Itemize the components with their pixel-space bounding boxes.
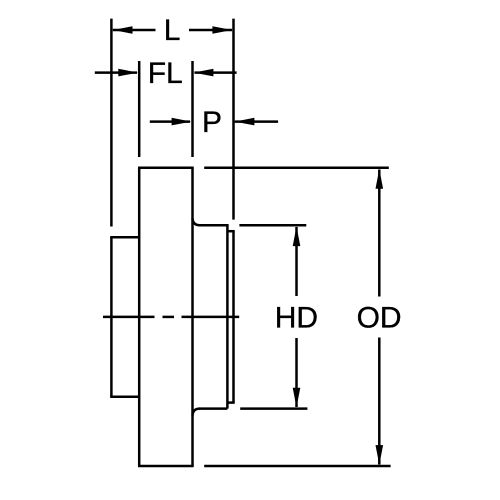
part: fillet bottom (flange to boss) bbox=[193, 409, 200, 416]
svg-text:HD: HD bbox=[275, 301, 318, 334]
part: flange right face bbox=[191, 168, 194, 466]
part: boss end face edge bbox=[226, 225, 229, 408]
part: step top edge bbox=[227, 230, 234, 233]
part: boss bottom edge (HD) bbox=[199, 407, 227, 410]
dimension P: right leader line bbox=[235, 120, 278, 123]
centerline segment long left bbox=[103, 316, 155, 319]
dimension OD: top arrow bbox=[376, 169, 384, 189]
dimension HD: top arrow bbox=[293, 226, 301, 246]
dimension L: left arrow bbox=[113, 26, 133, 34]
svg-text:P: P bbox=[202, 106, 222, 139]
dimension OD: lower line segment bbox=[378, 338, 381, 465]
dimension OD: upper line segment bbox=[378, 170, 381, 297]
extension line: left face (L dimension, left) bbox=[110, 19, 113, 227]
dimension FL: left arrow bbox=[118, 69, 138, 77]
svg-text:FL: FL bbox=[148, 57, 183, 90]
svg-text:OD: OD bbox=[357, 301, 402, 334]
dimension L: left line segment bbox=[113, 29, 156, 32]
extension line: flange left face (FL dimension, left) bbox=[138, 61, 141, 157]
part: boss top edge (HD) bbox=[199, 224, 229, 227]
dimension HD: upper line segment bbox=[295, 227, 298, 296]
part: hub top edge bbox=[110, 236, 139, 239]
extension line: OD top bbox=[204, 167, 389, 170]
dimension L: right line segment bbox=[189, 29, 232, 32]
part: flange bottom edge (OD) bbox=[138, 465, 194, 468]
dimension HD: lower line segment bbox=[295, 338, 298, 407]
svg-text:L: L bbox=[164, 14, 181, 47]
dimension P: right arrow bbox=[235, 118, 255, 126]
dimension P: left arrow bbox=[172, 118, 192, 126]
extension line: HD top bbox=[239, 224, 306, 227]
part: fillet top (flange to boss) bbox=[193, 218, 200, 225]
dimension HD: bottom arrow bbox=[293, 388, 301, 408]
dimension L: right arrow bbox=[212, 26, 232, 34]
dimension FL: left leader line bbox=[95, 71, 137, 74]
part: pilot right face bbox=[232, 231, 235, 402]
centerline short dash bbox=[163, 316, 175, 319]
part: hub bottom edge bbox=[110, 395, 139, 398]
extension line: HD bottom bbox=[240, 407, 307, 410]
dimension P: left leader line bbox=[150, 120, 190, 123]
part: step bottom edge bbox=[227, 401, 234, 404]
extension line: OD bottom bbox=[204, 465, 390, 468]
part: hub left face bbox=[110, 237, 113, 396]
dimension FL: right leader line bbox=[195, 71, 237, 74]
dimension OD: bottom arrow bbox=[376, 445, 384, 465]
dimension FL: right arrow bbox=[194, 69, 214, 77]
extension line: right face (L and P dimensions, right) bbox=[232, 19, 235, 220]
part: flange top edge (OD) bbox=[138, 167, 194, 170]
part: flange left face bbox=[138, 168, 141, 466]
centerline segment long right bbox=[182, 316, 240, 319]
extension line: flange right face (FL and P dimensions) bbox=[191, 61, 194, 157]
